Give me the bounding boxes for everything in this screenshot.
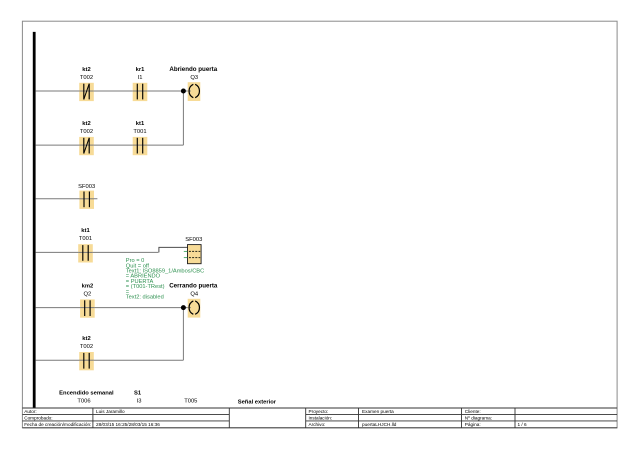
svg-text:Archivo:: Archivo: — [309, 422, 326, 427]
svg-text:Abriendo puerta: Abriendo puerta — [169, 66, 217, 73]
wire rung 4 riser to block SF003 — [159, 247, 188, 252]
label S1 I3 (clipped rung 7) — [134, 390, 142, 404]
contact km2 Q2 (NO) rung 5 — [80, 283, 95, 317]
contact kt2 T002 (NO) rung 6 — [79, 336, 94, 370]
contact kr1 I1 (NO) rung 1 — [133, 67, 148, 101]
contact kt2 T002 (NC) rung 1 — [79, 67, 94, 101]
green parameter tick 1 on SF003 — [184, 250, 188, 252]
node junction at coil Q3 — [181, 89, 186, 94]
green parameter tick 2 on SF003 — [184, 257, 188, 259]
svg-text:Señal exterior: Señal exterior — [238, 399, 277, 405]
label Encendido semanal T006 (clipped rung 7) — [59, 390, 114, 404]
svg-text:Examen puerta: Examen puerta — [362, 409, 394, 414]
svg-text:Cliente:: Cliente: — [465, 409, 481, 414]
svg-text:1 / 6: 1 / 6 — [518, 422, 528, 427]
wire rung 2 — [36, 144, 184, 146]
svg-text:Q4: Q4 — [190, 291, 199, 297]
svg-text:T001: T001 — [133, 129, 146, 135]
wire rung 4 — [36, 251, 159, 253]
coil Q4 Cerrando puerta — [169, 282, 218, 317]
svg-text:kt2: kt2 — [82, 121, 90, 127]
wire rung 3 — [36, 198, 98, 200]
svg-text:Página:: Página: — [465, 422, 481, 427]
svg-text:km2: km2 — [82, 283, 94, 289]
svg-text:28/03/15 16:25/28/03/15 16:36: 28/03/15 16:25/28/03/15 16:36 — [96, 422, 160, 427]
svg-text:= (T001-TRest): = (T001-TRest) — [126, 284, 165, 290]
node junction at coil Q4 — [181, 305, 186, 310]
svg-text:kt1: kt1 — [136, 121, 145, 127]
contact kt1 T001 (NO) rung 2 — [133, 121, 148, 155]
wire rung 5 — [36, 307, 189, 309]
contact kt1 T001 (NO) rung 4 — [78, 228, 93, 262]
svg-text:Encendido semanal: Encendido semanal — [59, 390, 114, 396]
svg-text:puertaLHJCH.lld: puertaLHJCH.lld — [362, 422, 397, 427]
svg-text:kt1: kt1 — [81, 228, 90, 234]
power rail (left bus) — [33, 32, 36, 408]
wire branch rung2 to rung1 junction — [182, 91, 184, 145]
contact SF003 (NO) rung 3 — [78, 184, 95, 209]
title block texts — [24, 409, 527, 427]
wire rung 1 — [36, 90, 189, 92]
svg-text:T005: T005 — [184, 399, 197, 405]
svg-text:Fecha de creación/modificación: Fecha de creación/modificación: — [24, 422, 91, 427]
svg-text:kt2: kt2 — [82, 336, 90, 342]
function block SF003 (message text) — [185, 237, 202, 264]
svg-text:SF003: SF003 — [78, 184, 95, 190]
svg-text:Luis Jaramillo: Luis Jaramillo — [96, 409, 125, 414]
svg-text:T006: T006 — [77, 399, 90, 405]
svg-text:Instalación:: Instalación: — [309, 415, 333, 420]
svg-text:kt2: kt2 — [82, 67, 90, 73]
svg-text:Proyecto:: Proyecto: — [309, 409, 329, 414]
svg-text:Cerrando puerta: Cerrando puerta — [169, 282, 218, 289]
svg-text:S1: S1 — [134, 390, 142, 396]
svg-text:T001: T001 — [79, 236, 92, 242]
svg-text:Q3: Q3 — [190, 75, 198, 81]
svg-text:Nº diagrama:: Nº diagrama: — [465, 415, 492, 420]
coil Q3 Abriendo puerta — [169, 66, 217, 101]
svg-text:kr1: kr1 — [136, 67, 145, 73]
svg-text:Q2: Q2 — [84, 291, 92, 297]
svg-text:Comprobado:: Comprobado: — [24, 415, 52, 420]
svg-text:T002: T002 — [80, 75, 93, 81]
svg-text:SF003: SF003 — [185, 237, 202, 243]
wire branch rung6 to rung5 junction — [182, 308, 184, 361]
svg-text:I1: I1 — [138, 75, 143, 81]
svg-text:T002: T002 — [80, 344, 93, 350]
svg-text:Text2: disabled: Text2: disabled — [126, 295, 164, 301]
parameter text block of SF003 (green) — [126, 258, 204, 300]
svg-text:Autor:: Autor: — [24, 409, 37, 414]
title block grid — [22, 408, 617, 428]
contact kt2 T002 (NC) rung 2 — [79, 121, 94, 155]
svg-text:I3: I3 — [137, 399, 142, 405]
svg-text:T002: T002 — [80, 129, 93, 135]
wire rung 6 — [36, 359, 184, 361]
